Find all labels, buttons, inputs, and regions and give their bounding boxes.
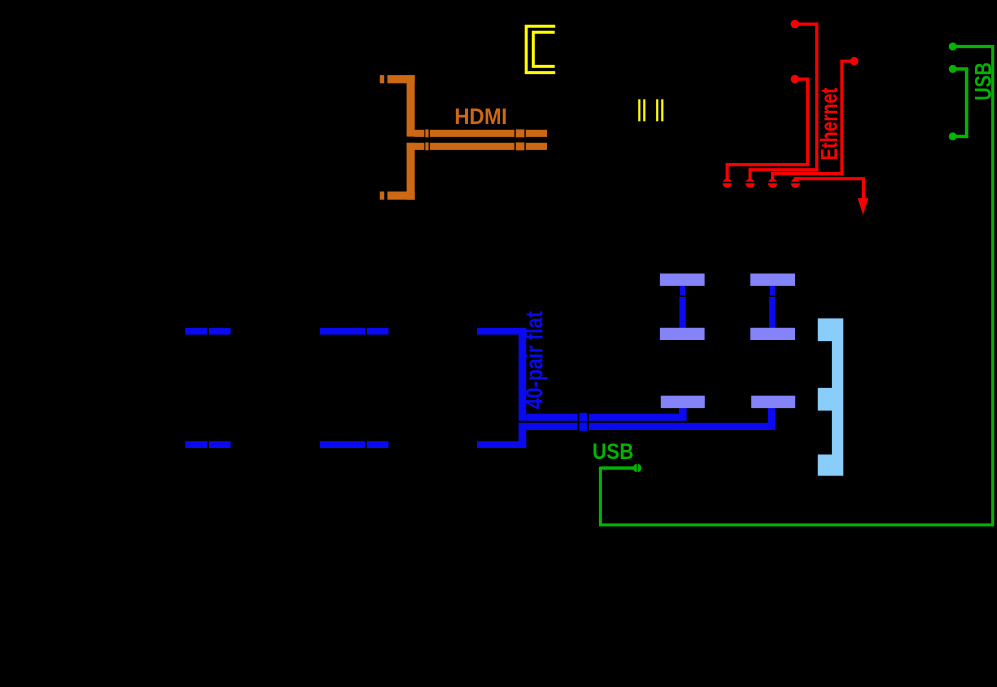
svg-text:USB: USB bbox=[971, 62, 996, 100]
ethernet wire socket4 to arrow bbox=[795, 179, 863, 199]
ethernet socket 3 bbox=[767, 179, 777, 188]
flat cable bracket upper vertical bbox=[519, 328, 527, 421]
cable-crossing marks (yellow) bbox=[638, 99, 663, 121]
usb node B bbox=[949, 65, 957, 73]
connector block B3 bbox=[660, 328, 705, 340]
flat cable bracket lower vertical bbox=[519, 423, 527, 448]
pin block B6 to lower bus bbox=[768, 408, 776, 423]
usb wire right edge loop bbox=[600, 45, 992, 525]
ethernet arrow (to network) bbox=[858, 198, 869, 215]
svg-text:USB: USB bbox=[592, 440, 633, 465]
HDMI connector upper vertical bbox=[407, 75, 415, 137]
ethernet socket 1 bbox=[722, 179, 732, 188]
flat cable lower bus line with crossing mark bbox=[519, 422, 776, 431]
display connector J1 (yellow double-C bracket) bbox=[526, 26, 555, 72]
flat cable bracket top horizontal bbox=[477, 328, 526, 335]
connector block B2 bbox=[750, 274, 795, 286]
connector block B6 bbox=[751, 396, 795, 408]
ethernet wire node1 to socket2 bbox=[750, 24, 817, 180]
svg-text:40-pair flat: 40-pair flat bbox=[520, 311, 548, 409]
pin block B5 to upper bus bbox=[679, 408, 687, 414]
usb wire bottom branch bbox=[600, 466, 633, 469]
connector block B5 bbox=[661, 396, 705, 408]
edge connector comb (light blue) bbox=[818, 318, 844, 475]
flat cable dashed line top row bbox=[185, 328, 388, 335]
svg-text:HDMI: HDMI bbox=[455, 106, 508, 130]
ethernet socket 2 bbox=[745, 179, 755, 188]
usb wire node A stub bbox=[953, 45, 992, 48]
pin between blocks B1-B3 bbox=[679, 286, 685, 328]
HDMI connector bottom end bar bbox=[380, 192, 415, 200]
ethernet socket 4 bbox=[790, 179, 800, 188]
flat cable dashed line bottom row bbox=[185, 441, 388, 448]
ethernet node 2 bbox=[791, 75, 799, 83]
ethernet node 1 bbox=[791, 20, 799, 28]
flat cable upper bus line with crossing mark bbox=[526, 413, 686, 422]
ethernet node 3 bbox=[850, 57, 858, 65]
svg-text:Ethernet: Ethernet bbox=[817, 87, 843, 160]
ethernet wire node3 to socket3 bbox=[773, 61, 855, 180]
HDMI cable lower line bbox=[407, 142, 547, 150]
connector block B4 bbox=[750, 328, 795, 340]
connector block B1 bbox=[660, 274, 705, 286]
usb node A bbox=[949, 43, 957, 51]
HDMI connector top end bar bbox=[380, 75, 415, 83]
usb bottom plug bbox=[633, 463, 641, 473]
pin between blocks B2-B4 bbox=[769, 286, 775, 328]
usb node C bbox=[949, 132, 957, 140]
HDMI cable upper line bbox=[414, 129, 547, 137]
HDMI connector lower vertical bbox=[407, 143, 415, 200]
usb wire node B to node C bbox=[953, 69, 967, 136]
ethernet wire node2 to socket1 bbox=[727, 79, 808, 180]
flat cable bracket bottom horizontal bbox=[477, 441, 526, 448]
